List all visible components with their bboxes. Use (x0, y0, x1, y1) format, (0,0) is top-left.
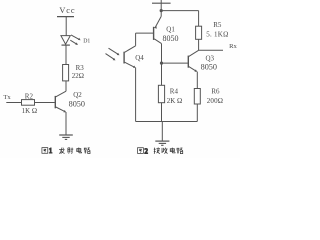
svg-text:Q4: Q4 (135, 54, 144, 62)
svg-text:Rx: Rx (229, 43, 237, 50)
svg-text:R5: R5 (213, 21, 222, 29)
svg-text:D1: D1 (83, 39, 90, 45)
svg-text:5. 1KΩ: 5. 1KΩ (206, 30, 228, 38)
svg-text:R3: R3 (76, 64, 85, 72)
svg-text:1K Ω: 1K Ω (22, 107, 38, 115)
svg-text:Tx: Tx (3, 94, 11, 101)
svg-text:R6: R6 (211, 87, 220, 95)
svg-text:2K Ω: 2K Ω (167, 97, 183, 105)
svg-text:8050: 8050 (69, 99, 85, 108)
svg-text:22Ω: 22Ω (72, 72, 84, 80)
svg-text:1: 1 (49, 148, 52, 155)
svg-text:200Ω: 200Ω (207, 97, 224, 105)
svg-text:2: 2 (145, 148, 149, 155)
svg-text:Q3: Q3 (206, 55, 215, 63)
svg-text:8050: 8050 (163, 34, 179, 43)
svg-text:R4: R4 (170, 87, 179, 95)
svg-text:Q2: Q2 (73, 91, 82, 99)
svg-text:R2: R2 (25, 92, 34, 100)
svg-text:Vcc: Vcc (59, 6, 75, 15)
svg-text:Q1: Q1 (166, 25, 175, 33)
svg-text:8050: 8050 (201, 63, 217, 72)
